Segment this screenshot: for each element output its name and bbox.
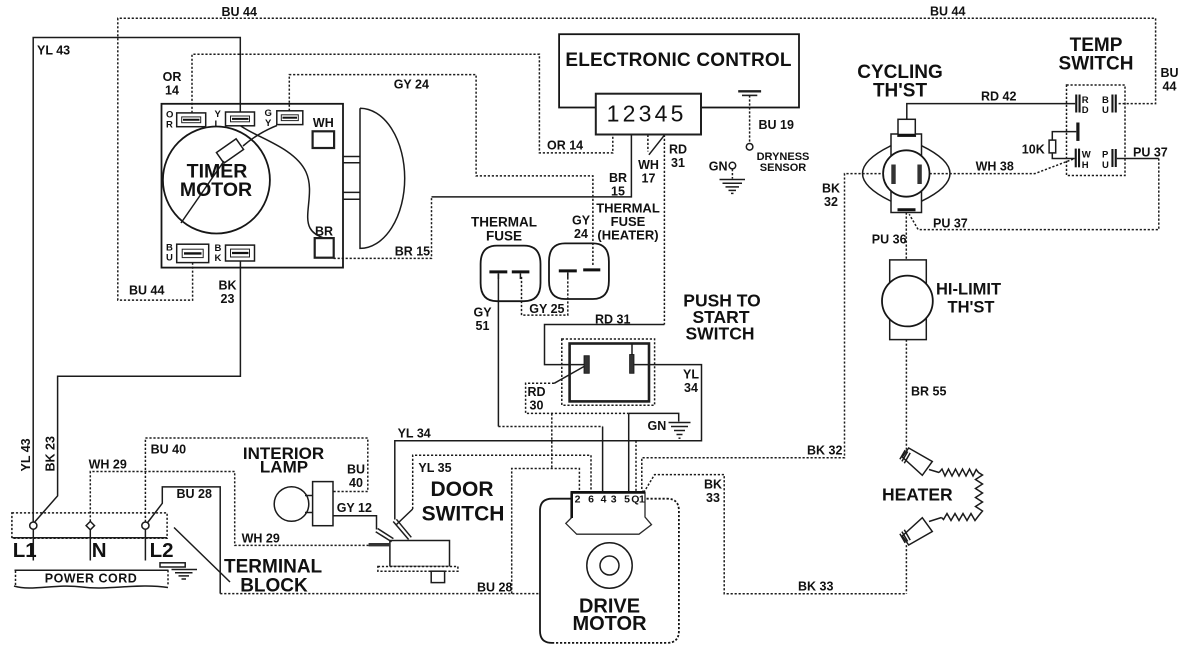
svg-text:44: 44 xyxy=(1163,80,1177,94)
temp switch RD terminal xyxy=(1075,95,1077,113)
svg-text:RD: RD xyxy=(527,385,545,399)
svg-text:GY 12: GY 12 xyxy=(337,501,372,515)
temp switch xyxy=(1049,85,1125,176)
svg-text:31: 31 xyxy=(671,156,685,170)
svg-text:HI-LIMIT: HI-LIMIT xyxy=(936,281,1001,299)
chassis ground at L2 xyxy=(160,563,185,567)
timer terminal GY xyxy=(265,108,303,129)
svg-text:RD 42: RD 42 xyxy=(981,90,1016,104)
wire YL 35 (door switch to motor pin 6) xyxy=(413,455,591,509)
timer half-disc xyxy=(360,108,405,248)
svg-text:WH 38: WH 38 xyxy=(976,160,1014,174)
svg-text:Y: Y xyxy=(265,118,272,129)
svg-text:(HEATER): (HEATER) xyxy=(597,228,658,243)
svg-text:BK 32: BK 32 xyxy=(807,444,842,458)
svg-text:WH: WH xyxy=(638,158,659,172)
wire RD 30 (diagonal from left contact and dotted rail) xyxy=(554,367,584,384)
svg-text:BR: BR xyxy=(315,225,333,239)
svg-text:RD 31: RD 31 xyxy=(595,313,630,327)
hi-limit thermostat xyxy=(882,260,933,340)
svg-text:BK 23: BK 23 xyxy=(44,436,58,471)
svg-text:TH'ST: TH'ST xyxy=(873,81,928,102)
svg-text:PU 37: PU 37 xyxy=(933,217,968,231)
wire GY 24 (timer GY terminal to thermal fuse heater) xyxy=(289,75,593,267)
svg-text:GN: GN xyxy=(648,419,667,433)
svg-text:N: N xyxy=(92,539,107,562)
svg-text:PU 37: PU 37 xyxy=(1133,146,1168,160)
svg-text:TH'ST: TH'ST xyxy=(948,299,995,317)
power cord leads xyxy=(32,529,34,560)
svg-text:GN: GN xyxy=(709,160,728,174)
node L1 xyxy=(30,522,37,529)
timer cam follower line xyxy=(181,161,224,223)
svg-text:5: 5 xyxy=(624,493,630,505)
svg-text:BU 44: BU 44 xyxy=(129,284,164,298)
wire YL 43 (L1 to timer YL terminal) xyxy=(33,38,240,523)
svg-text:BK: BK xyxy=(218,279,236,293)
connector 1 2 3 4 5 xyxy=(596,94,701,135)
svg-text:BK: BK xyxy=(704,478,722,492)
timer half-disc links xyxy=(343,156,360,158)
svg-text:GY: GY xyxy=(572,214,591,228)
svg-text:SWITCH: SWITCH xyxy=(685,324,754,344)
door switch lever (YL) xyxy=(393,522,408,540)
svg-text:LAMP: LAMP xyxy=(260,458,308,477)
svg-text:YL 43: YL 43 xyxy=(19,438,33,471)
wire PU 37 (temp switch PU to cycling thermostat bottom) xyxy=(1117,158,1159,160)
door switch lever (GY) xyxy=(376,532,392,542)
svg-text:HEATER: HEATER xyxy=(882,485,953,505)
svg-text:34: 34 xyxy=(684,381,698,395)
cycling thermostat disc xyxy=(883,150,929,196)
svg-text:MOTOR: MOTOR xyxy=(572,613,647,635)
svg-text:33: 33 xyxy=(706,491,720,505)
svg-text:R: R xyxy=(166,120,173,131)
svg-text:BU 28: BU 28 xyxy=(177,487,212,501)
svg-text:YL 34: YL 34 xyxy=(398,427,431,441)
svg-text:U: U xyxy=(1102,105,1109,116)
svg-text:30: 30 xyxy=(530,399,544,413)
svg-text:U: U xyxy=(1102,160,1109,171)
svg-text:BU 19: BU 19 xyxy=(759,118,794,132)
thermal fuse F1 xyxy=(481,246,541,302)
svg-text:BK 33: BK 33 xyxy=(798,580,833,594)
svg-text:OR: OR xyxy=(163,70,182,84)
ground (dryness sensor GN) xyxy=(720,179,746,181)
svg-text:1: 1 xyxy=(607,101,620,127)
resistor 10K xyxy=(1052,132,1076,141)
svg-text:D: D xyxy=(1082,105,1089,116)
temp switch WH terminal xyxy=(1075,149,1077,168)
drive motor connector pocket xyxy=(566,492,652,534)
svg-text:WH: WH xyxy=(313,116,334,130)
svg-text:BR: BR xyxy=(609,171,627,185)
wire WH 29 (N to door switch) xyxy=(90,472,368,546)
svg-text:W: W xyxy=(1082,150,1091,161)
door switch WH29 contact bar xyxy=(369,543,390,546)
svg-text:RD: RD xyxy=(669,143,687,157)
svg-text:1: 1 xyxy=(639,493,645,505)
svg-text:BLOCK: BLOCK xyxy=(240,576,308,597)
heater bottom lead cone xyxy=(929,518,942,522)
power cord xyxy=(14,570,169,588)
svg-text:SWITCH: SWITCH xyxy=(1059,54,1134,75)
terminal block pointer line xyxy=(174,528,230,583)
heater top lead cone xyxy=(902,448,932,475)
wire OR 14 (timer OR terminal to electronic control pin 1) xyxy=(192,54,613,153)
svg-text:51: 51 xyxy=(476,319,490,333)
svg-text:YL 43: YL 43 xyxy=(37,44,70,58)
svg-text:L1: L1 xyxy=(13,539,37,562)
svg-text:L: L xyxy=(215,119,221,130)
timer terminal YL xyxy=(215,109,255,130)
svg-text:2: 2 xyxy=(623,101,636,127)
node N xyxy=(86,521,94,529)
svg-text:GY: GY xyxy=(473,306,492,320)
temp switch common contact xyxy=(1076,123,1079,141)
timer interior curve xyxy=(241,126,324,238)
timer motor circle xyxy=(163,127,270,234)
timer terminal BR xyxy=(315,225,334,258)
svg-text:BK: BK xyxy=(822,182,840,196)
svg-text:POWER CORD: POWER CORD xyxy=(45,572,138,586)
node L2 xyxy=(142,522,149,529)
timer terminal BK xyxy=(215,243,255,264)
cycling thermostat body xyxy=(891,134,922,213)
dryness sensor xyxy=(720,91,762,193)
svg-text:3: 3 xyxy=(639,101,652,127)
push to start switch S1 xyxy=(562,339,655,405)
svg-text:P: P xyxy=(1102,150,1109,161)
svg-text:H: H xyxy=(1082,160,1089,171)
wire GN rail (to ground and motor pin 5) xyxy=(629,413,679,421)
svg-text:24: 24 xyxy=(574,227,588,241)
svg-text:40: 40 xyxy=(349,476,363,490)
svg-text:FUSE: FUSE xyxy=(486,229,522,244)
svg-text:K: K xyxy=(215,253,222,264)
svg-text:ELECTRONIC CONTROL: ELECTRONIC CONTROL xyxy=(565,50,792,71)
svg-text:BR 55: BR 55 xyxy=(911,385,946,399)
svg-text:OR 14: OR 14 xyxy=(547,139,583,153)
svg-text:U: U xyxy=(166,253,173,264)
svg-text:14: 14 xyxy=(165,84,179,98)
cycling thermostat xyxy=(863,119,951,212)
svg-text:YL: YL xyxy=(683,368,699,382)
svg-text:15: 15 xyxy=(611,185,625,199)
wire GY 51 (thermal fuse to motor pin 4) xyxy=(497,274,499,427)
svg-text:MOTOR: MOTOR xyxy=(180,179,252,201)
wire heater bottom lead xyxy=(905,545,907,594)
svg-text:WH 29: WH 29 xyxy=(89,458,127,472)
svg-text:BU 44: BU 44 xyxy=(222,5,257,19)
svg-text:TERMINAL: TERMINAL xyxy=(224,557,323,578)
svg-text:10K: 10K xyxy=(1022,143,1045,157)
wire GY 12 (lamp to door switch lever) xyxy=(333,516,376,530)
wire BR 55 (hi-limit to heater) xyxy=(905,340,907,452)
timer motor xyxy=(162,104,405,268)
interior lamp DS1 xyxy=(274,482,333,526)
svg-text:GY 25: GY 25 xyxy=(529,302,564,316)
ground GN (push-to-start) xyxy=(669,423,691,439)
svg-text:THERMAL: THERMAL xyxy=(471,215,537,230)
wire RD 30 to motor pin 2 and tap to bottom rail xyxy=(512,469,580,594)
wire WH 17 (stub and diagonal from control) xyxy=(647,135,649,152)
svg-text:23: 23 xyxy=(221,292,235,306)
svg-text:32: 32 xyxy=(824,195,838,209)
wire BK 23 (timer BK terminal to L1) xyxy=(34,261,241,523)
svg-text:4: 4 xyxy=(601,493,607,505)
heater element zigzag xyxy=(939,469,982,521)
svg-text:5: 5 xyxy=(671,101,684,127)
wire BK 32 (motor pin 1 to cycling thermostat) xyxy=(642,174,884,493)
svg-text:SENSOR: SENSOR xyxy=(760,162,807,174)
door switch S2 xyxy=(369,519,458,582)
wire RD 42 (cycling thermostat to temp switch RD) xyxy=(907,104,1075,120)
electronic control U1 xyxy=(559,34,799,134)
svg-text:BU 44: BU 44 xyxy=(930,5,965,19)
svg-text:L2: L2 xyxy=(150,539,174,562)
cycling thermostat wings xyxy=(863,146,892,202)
timer cam xyxy=(216,139,243,163)
wire BK 33 (motor pin 1 to heater) xyxy=(644,475,907,594)
svg-text:BR 15: BR 15 xyxy=(395,245,430,259)
timer terminal BU xyxy=(166,243,209,264)
drive motor shaft circles xyxy=(587,543,632,588)
svg-text:BU 28: BU 28 xyxy=(477,581,512,595)
svg-text:BU 40: BU 40 xyxy=(151,443,186,457)
wire BU 28 (L2 to bottom rail to drive motor) xyxy=(147,487,220,594)
svg-text:3: 3 xyxy=(611,493,617,505)
svg-text:SWITCH: SWITCH xyxy=(422,503,505,526)
wire YL 34 (push-to-start right contact to door switch, tap to motor pin) xyxy=(395,365,702,520)
svg-text:PU 36: PU 36 xyxy=(872,233,907,247)
wire WH 38 (cycling thermostat to temp switch WH) xyxy=(930,159,1075,174)
svg-text:DOOR: DOOR xyxy=(431,478,494,501)
timer terminal WH xyxy=(313,116,335,148)
wire BR 15 (timer BR to electronic control pin 2) xyxy=(334,197,432,259)
svg-text:BU: BU xyxy=(1160,66,1178,80)
svg-text:17: 17 xyxy=(642,172,656,186)
wire PU 36 (cycling thermostat to hi-limit) xyxy=(905,213,907,260)
thermal fuse (heater) F2 xyxy=(549,243,609,299)
drive motor outline xyxy=(540,499,572,643)
svg-text:GY 24: GY 24 xyxy=(394,78,429,92)
svg-text:6: 6 xyxy=(588,493,594,505)
wire GY 25 (thermal fuse to thermal fuse heater) xyxy=(522,273,568,315)
svg-text:BU: BU xyxy=(347,463,365,477)
timer terminal OR xyxy=(166,110,206,131)
svg-text:WH 29: WH 29 xyxy=(242,532,280,546)
wire RD 31 (control pin to push-to-start switch) xyxy=(663,135,665,325)
svg-text:YL 35: YL 35 xyxy=(418,461,451,475)
wire BU 40 (L2 to interior lamp) xyxy=(145,438,367,522)
heater R1 xyxy=(900,448,983,545)
terminal block TB xyxy=(12,513,230,582)
svg-text:2: 2 xyxy=(575,493,581,505)
svg-text:4: 4 xyxy=(655,101,668,127)
drive motor M1 xyxy=(540,492,679,643)
wire BU 44 (timer BU terminal, left edge, top rail, to temp switch BU) xyxy=(118,18,1156,300)
